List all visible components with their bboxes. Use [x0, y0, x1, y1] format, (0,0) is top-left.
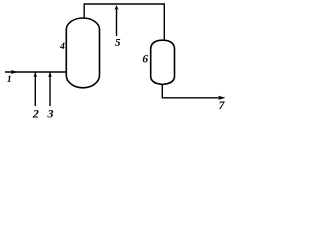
- svg-text:5: 5: [115, 37, 121, 49]
- svg-text:2: 2: [32, 107, 39, 121]
- arrowhead stream 7: [218, 96, 225, 100]
- vessel 6 drum: [151, 40, 175, 84]
- svg-text:4: 4: [59, 42, 65, 52]
- wire stream 3: [49, 73, 51, 106]
- svg-text:1: 1: [7, 75, 12, 85]
- wire stream 5: [116, 9, 118, 36]
- wire stream 1 feed line: [5, 71, 66, 73]
- arrowhead stream 5: [115, 5, 119, 10]
- arrowhead stream 1: [11, 70, 18, 74]
- wire stream 2: [34, 73, 36, 106]
- wire stream 7 outlet: [162, 84, 219, 98]
- vessel 4 column: [66, 18, 99, 88]
- wire overhead pipe vessel4 to vessel6: [84, 4, 164, 41]
- arrowhead stream 3: [48, 73, 52, 77]
- svg-text:6: 6: [142, 54, 148, 66]
- arrowhead stream 2: [33, 73, 37, 77]
- svg-text:3: 3: [47, 107, 54, 121]
